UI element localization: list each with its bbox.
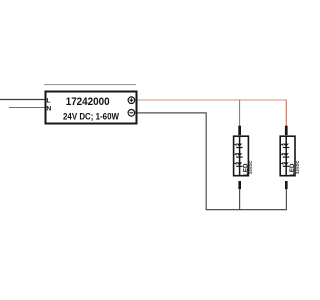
wire 0V from driver — [138, 113, 287, 210]
LED module LED2 — [280, 126, 300, 190]
LED1 bottom connector — [238, 181, 241, 189]
LED2 internal wire — [285, 135, 287, 176]
LED1 diode D3 — [234, 162, 243, 167]
wire L input — [0, 99, 45, 101]
LED1 body — [234, 136, 249, 176]
LED1 top connector — [238, 126, 241, 135]
LED1 diode D1 — [234, 143, 243, 148]
svg-text:L: L — [46, 98, 50, 105]
wire +V horizontal — [138, 99, 287, 101]
LED1 internal wire — [239, 135, 241, 176]
svg-text:24V DC; 1-60W: 24V DC; 1-60W — [63, 112, 119, 122]
LED1 diode D2 — [234, 153, 243, 158]
svg-text:24VDC: 24VDC — [295, 161, 300, 175]
terminal - negative output — [128, 110, 135, 117]
svg-text:24VDC: 24VDC — [248, 161, 253, 175]
wire 0V riser to LED1 — [239, 189, 241, 210]
LED driver U1 body — [46, 92, 137, 124]
LED2 top connector — [285, 126, 288, 135]
LED2 body — [280, 136, 295, 176]
LED2 bottom connector — [285, 181, 288, 189]
LED2 diode D2 — [281, 153, 290, 158]
terminal + positive output — [128, 97, 135, 104]
wire +V drop to LED2 — [285, 100, 287, 127]
svg-text:17242000: 17242000 — [66, 96, 110, 108]
LED2 diode D3 — [281, 162, 290, 167]
driver cover edge line — [44, 84, 136, 86]
svg-text:N: N — [46, 106, 51, 113]
LED module LED1 — [234, 126, 254, 190]
LED2 diode D1 — [281, 143, 290, 148]
wire +V drop to LED1 — [239, 100, 241, 127]
wire N input — [9, 107, 45, 109]
